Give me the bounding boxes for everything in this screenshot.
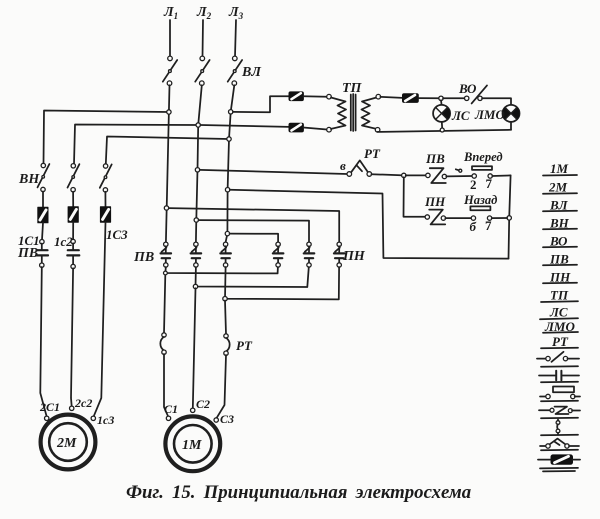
legend label 2М: [548, 180, 568, 195]
switch ВЛ pole 2: [195, 56, 209, 85]
legend rule 19: [543, 470, 575, 472]
wire ПН coil to button: [445, 217, 471, 219]
legend label ПВ: [549, 252, 569, 267]
svg-text:С3: С3: [220, 412, 234, 426]
contactor ПВ main contact 2: [191, 242, 201, 267]
svg-text:Л1: Л1: [163, 5, 178, 21]
legend label ЛМО: [544, 319, 575, 334]
switch ВН pole 1: [38, 163, 50, 191]
label ВО: [458, 81, 477, 96]
svg-text:ЛС: ЛС: [451, 108, 470, 123]
wire branch 1 to ВН: [44, 111, 169, 164]
contactor ПН main contact 6: [334, 242, 344, 267]
switch ВН pole 3: [100, 164, 112, 192]
node rail junction: [507, 216, 511, 220]
legend rule 15: [541, 417, 578, 420]
svg-text:1М: 1М: [182, 438, 202, 453]
svg-text:РТ: РТ: [552, 334, 569, 349]
svg-text:2М: 2М: [56, 436, 77, 451]
pin б label: [470, 219, 477, 234]
terminal 1с3: [91, 416, 95, 420]
node junction Л3-branch3: [227, 137, 231, 141]
svg-text:2М: 2М: [548, 180, 568, 195]
svg-text:ВН: ВН: [18, 172, 40, 187]
wire fuse1С1 to ПВ contact: [42, 223, 43, 240]
transformer ТП: [327, 94, 381, 132]
wire phase B to С2: [193, 288, 196, 408]
node Л1 label: [163, 5, 178, 21]
label 1с2: [54, 234, 73, 249]
terminal С1: [166, 416, 170, 420]
svg-text:РТ: РТ: [364, 146, 381, 161]
legend rule 6: [543, 264, 577, 267]
terminal 2С1: [45, 416, 49, 420]
contact ПВ aux 1: [36, 240, 48, 268]
wire node to ВО switch: [443, 97, 465, 99]
label 1С1: [18, 233, 40, 248]
wire Л3 lead-in: [235, 20, 236, 56]
node junction Л3-return: [225, 188, 229, 192]
wire column A to 2С1: [40, 267, 46, 417]
svg-text:ПН: ПН: [424, 194, 446, 209]
label РТ heater: [236, 338, 253, 353]
label ЛС: [451, 108, 470, 123]
label 1М: [182, 438, 202, 453]
svg-text:1М: 1М: [550, 161, 569, 176]
wire control return loop: [230, 190, 509, 259]
label ВН: [18, 172, 40, 187]
contactor ПВ main contact 1: [161, 242, 171, 267]
wire fuse1с2 to ПВ contact: [72, 222, 74, 240]
label 2М: [56, 436, 77, 451]
legend rule 10: [543, 331, 578, 334]
wire Л1 lead-in: [169, 20, 171, 56]
svg-text:ПВ: ПВ: [17, 246, 38, 261]
svg-text:ТП: ТП: [342, 81, 363, 96]
label С3: [220, 412, 234, 426]
node Л3 label: [228, 5, 244, 21]
switch ВО: [465, 85, 488, 103]
coil ПВ: [426, 168, 447, 183]
wire Л3 to fuse 1: [233, 96, 289, 112]
svg-text:ПН: ПН: [342, 249, 366, 264]
svg-text:7: 7: [485, 218, 492, 233]
legend symbol contact: [539, 371, 579, 381]
wire Л1 bus: [166, 85, 170, 242]
terminal С3: [214, 418, 218, 422]
motor 2М: [41, 415, 96, 470]
legend rule 4: [543, 228, 577, 231]
contact 7 (Вперед): [488, 174, 492, 178]
wire phase A to heater РТ1: [164, 275, 165, 333]
wire Л1 to contact 6: [169, 208, 340, 242]
lamp ЛС: [433, 100, 450, 128]
wire lamp return bus: [378, 130, 511, 132]
wire contact7 Назад to rail: [492, 217, 508, 219]
wire column C to 1с3: [94, 222, 106, 417]
wire contact7 to right rail: [492, 174, 510, 177]
svg-text:Л2: Л2: [196, 5, 212, 21]
node junction phase A out: [164, 271, 168, 275]
wire node to ПВ coil: [406, 174, 426, 176]
node junction phase C out: [223, 297, 227, 301]
pin 7 label (Назад): [485, 218, 492, 233]
node label в: [340, 158, 346, 173]
legend label ПН: [549, 270, 571, 285]
wire contact3 out tie to contact6: [225, 267, 339, 299]
legend rule 14: [541, 400, 578, 403]
legend rule 8: [541, 300, 578, 303]
wire coil node to ПН coil: [404, 177, 427, 217]
switch ВЛ pole 3: [228, 56, 242, 85]
fuse F2 (transformer primary bottom): [289, 123, 303, 132]
wire secondary to fuse 3: [380, 97, 402, 98]
wire right rail: [509, 175, 511, 258]
wire ВО to lamp ЛМО: [482, 98, 511, 105]
wire heater2 to С3: [216, 355, 226, 418]
svg-text:Вперед: Вперед: [463, 150, 503, 164]
node junction phase B out: [193, 284, 197, 288]
legend symbol fuse: [538, 455, 580, 464]
legend label ВЛ: [549, 198, 569, 213]
switch ВЛ pole 1: [163, 56, 177, 85]
legend rule 9: [540, 318, 578, 319]
label С2: [196, 397, 210, 411]
switch ВН pole 2: [68, 164, 80, 192]
legend label ВО: [549, 234, 568, 249]
wire heater1 to С1: [164, 354, 168, 417]
wire ВН3 to fuse: [104, 192, 106, 207]
legend symbol switch: [537, 352, 579, 362]
label ЛМО: [474, 107, 505, 122]
thermal contact РТ: [347, 160, 372, 176]
terminal С2: [191, 408, 195, 412]
svg-text:РТ: РТ: [236, 338, 253, 353]
svg-text:б: б: [470, 219, 477, 234]
fuse F3 (lamp circuit): [403, 94, 419, 103]
svg-text:С1: С1: [164, 402, 178, 416]
svg-text:ЛС: ЛС: [549, 305, 568, 320]
wire branch 2 to ВН and fuse 2: [74, 125, 198, 165]
wire Л2 to fuse 2: [200, 125, 289, 127]
contactor ПН main contact 5: [304, 242, 314, 267]
svg-text:1С3: 1С3: [106, 227, 128, 242]
legend symbol heater: [556, 420, 560, 435]
node ЛС bottom junction: [440, 128, 444, 132]
legend rule 2: [543, 192, 577, 195]
node ЛС top junction: [439, 96, 443, 100]
legend symbol coil: [539, 407, 580, 414]
label 2С1: [39, 400, 60, 414]
label ПВ (left contacts): [17, 246, 38, 261]
legend symbol pushbutton: [540, 387, 580, 399]
node junction Л2-branch: [196, 123, 200, 127]
contact ПВ aux 2: [67, 239, 79, 268]
legend rule 5: [543, 246, 577, 249]
button Вперед bar: [472, 166, 492, 170]
label Назад: [463, 193, 497, 207]
terminal 2с2: [70, 406, 74, 410]
label ПН coil: [424, 194, 446, 209]
wire contact1 out tie to contact4: [165, 267, 278, 273]
heater РТ element 2: [224, 334, 230, 356]
legend rule 16: [541, 434, 578, 437]
wire fuse1 to transformer primary: [303, 95, 327, 97]
lamp ЛМО: [503, 105, 520, 130]
motor 1М: [165, 416, 220, 471]
label ВЛ: [241, 65, 261, 80]
svg-text:2с2: 2с2: [74, 396, 92, 410]
legend label ВН: [549, 216, 570, 231]
legend symbol thermal contact: [540, 439, 579, 449]
svg-text:ТП: ТП: [550, 288, 569, 303]
svg-text:Л3: Л3: [228, 5, 244, 21]
fuse 1С1: [38, 207, 48, 222]
contact б (Назад): [471, 216, 475, 220]
label С1: [164, 402, 178, 416]
wire ВН1 to fuse: [42, 191, 44, 207]
node Л2 label: [196, 5, 212, 21]
legend rule 1: [543, 174, 577, 177]
legend rule 7: [543, 282, 577, 285]
legend label ТП: [550, 288, 569, 303]
legend rule 18: [540, 467, 578, 470]
svg-text:С2: С2: [196, 397, 210, 411]
node junction Л1 to reverse contact 6: [164, 206, 168, 210]
wire Л2 lead-in: [202, 20, 205, 56]
node junction Л3 to reverse contact 4: [225, 231, 229, 235]
wire contact2 out tie to contact5: [196, 267, 309, 287]
label 1с3: [97, 413, 114, 427]
legend rule 13: [541, 381, 578, 384]
svg-text:ПВ: ПВ: [425, 151, 445, 166]
fuse F1 (transformer primary top): [289, 92, 303, 101]
node junction Л3-fuse1: [229, 110, 233, 114]
wire Л3 to contact 4: [230, 234, 279, 243]
legend rule 11: [541, 347, 578, 350]
wire РТ to coil node: [371, 174, 403, 175]
label Вперед: [463, 150, 503, 164]
label ПВ coil: [425, 151, 445, 166]
wire ПВ coil to button: [446, 175, 472, 177]
svg-text:ВО: ВО: [458, 81, 477, 96]
svg-text:2С1: 2С1: [39, 400, 60, 414]
node junction Л2-control: [195, 168, 199, 172]
node coil feed junction: [402, 173, 406, 177]
wire Л2 to contact 5: [199, 220, 310, 242]
svg-text:ВЛ: ВЛ: [241, 65, 261, 80]
wire phase C to heater РТ2: [225, 301, 226, 335]
wire Л3 bus: [226, 85, 235, 242]
node р mark: [456, 169, 462, 172]
fuse 1с2: [68, 207, 78, 222]
wire fuse2 to transformer primary bottom: [303, 128, 327, 130]
svg-text:1с3: 1с3: [97, 413, 114, 427]
node junction Л1-branch: [167, 110, 171, 114]
legend label РТ: [552, 334, 569, 349]
wire branch 3 to ВН: [106, 137, 229, 165]
wire Л2 to РТ contact: [200, 170, 348, 174]
label РТ: [364, 146, 381, 161]
label ПВ (main contacts): [133, 250, 154, 265]
wire Л2 bus: [196, 85, 202, 242]
contactor ПН main contact 4: [273, 242, 283, 267]
contact 7 (Назад): [487, 216, 491, 220]
svg-text:Назад: Назад: [463, 193, 497, 207]
legend rule 12: [541, 365, 578, 368]
pin 7 label: [486, 176, 493, 191]
label ПН (main contacts): [342, 249, 366, 264]
pin 2 label: [470, 177, 477, 192]
wire fuse3 to node ЛС: [418, 97, 439, 99]
fuse 1С3: [101, 207, 111, 222]
svg-text:ЛМО: ЛМО: [474, 107, 505, 122]
svg-text:Фиг. 15. Принципиальная электр: Фиг. 15. Принципиальная электросхема: [126, 482, 471, 503]
legend label ЛС: [549, 305, 568, 320]
wire column B to 2с2: [71, 268, 73, 406]
caption Фиг. 15: [126, 482, 471, 503]
wire ВН2 to fuse: [72, 192, 74, 207]
contactor ПВ main contact 3: [220, 242, 230, 267]
svg-text:2: 2: [470, 177, 477, 192]
svg-text:7: 7: [486, 176, 493, 191]
legend label 1М: [550, 161, 569, 176]
svg-text:ПВ: ПВ: [133, 250, 154, 265]
label ТП: [342, 81, 363, 96]
label 1С3: [106, 227, 128, 242]
heater РТ element 1: [160, 333, 166, 355]
node junction Л2 to reverse contact 5: [194, 218, 198, 222]
legend rule 17: [541, 449, 578, 452]
coil ПН: [425, 210, 446, 225]
svg-text:в: в: [340, 158, 346, 173]
label 2с2: [74, 396, 92, 410]
legend rule 3: [543, 210, 577, 213]
button Назад bar: [470, 206, 490, 210]
contact 2 (Вперед): [472, 174, 476, 178]
